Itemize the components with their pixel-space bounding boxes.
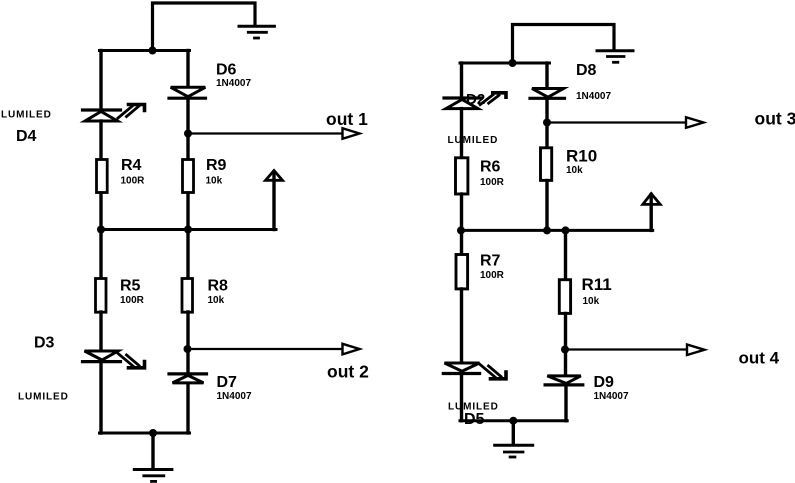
- svg-text:100R: 100R: [480, 270, 505, 281]
- LED D4 (cathode bar top, triangle up): [83, 110, 121, 121]
- wire: right branch bus to D6: [186, 51, 189, 87]
- wire: D4 to R4: [99, 121, 102, 159]
- wire: left branch mid bus to R5: [99, 230, 102, 279]
- svg-text:D4: D4: [16, 128, 37, 145]
- power arrow P1: [266, 171, 283, 230]
- svg-text:10k: 10k: [583, 296, 600, 307]
- resistor R9: [183, 160, 194, 193]
- svg-text:R10: R10: [566, 147, 597, 166]
- node: out1 junction dot: [184, 130, 192, 138]
- svg-text:R7: R7: [480, 253, 501, 270]
- svg-text:R6: R6: [480, 159, 501, 176]
- node: junction dot top-left bus: [149, 47, 157, 55]
- resistor R11: [559, 280, 570, 314]
- resistor R5: [96, 279, 107, 313]
- LED D2 emission arrows (drawn over label): [479, 93, 506, 106]
- svg-text:10k: 10k: [566, 165, 583, 176]
- wire: D7 to bottom bus: [186, 384, 189, 433]
- wire: D3 to bottom bus: [99, 362, 102, 433]
- node: dot left mid bus x=188: [184, 226, 192, 234]
- wire: out 2 line: [189, 348, 343, 350]
- ground G4 bottom-right: [495, 445, 533, 457]
- svg-text:R9: R9: [206, 157, 227, 174]
- wire: left branch from bus to D4: [99, 51, 102, 111]
- wire: R4 to mid bus: [99, 193, 102, 230]
- diode D9 (triangle down, bar bottom): [545, 376, 583, 385]
- wire: right bottom bus y=420.7: [460, 419, 567, 422]
- wire: right top bus y=63: [460, 62, 550, 65]
- wire: D9 to bottom bus: [564, 385, 567, 421]
- svg-text:out 3: out 3: [755, 109, 795, 129]
- svg-text:10k: 10k: [206, 176, 223, 187]
- svg-text:LUMILED: LUMILED: [448, 135, 499, 146]
- arrowhead out 1: [343, 128, 360, 139]
- wire: R11 to D9 through out4 node: [564, 314, 567, 375]
- LED D3 emission arrows: [118, 354, 145, 368]
- wire: left top bus y=50.5: [100, 49, 190, 52]
- wire: left top loop riser and top run to ground: [153, 3, 256, 51]
- svg-text:LUMILED: LUMILED: [1, 110, 52, 121]
- wire: right branch bus to D8: [545, 63, 548, 87]
- svg-text:D3: D3: [34, 335, 55, 352]
- svg-text:out 2: out 2: [327, 362, 369, 382]
- wire: R5 to D3: [99, 312, 102, 350]
- svg-text:R11: R11: [582, 275, 612, 294]
- wire: out 3 line: [548, 121, 686, 123]
- svg-text:100R: 100R: [120, 295, 145, 306]
- wire: D2 to R6: [460, 109, 463, 157]
- node: dot left mid bus x=101: [97, 226, 105, 234]
- resistor R7: [456, 255, 468, 289]
- diode D8 (triangle down, bar bottom): [530, 89, 565, 99]
- node: out4 junction dot: [561, 346, 569, 354]
- svg-text:R8: R8: [208, 278, 229, 295]
- svg-text:D2: D2: [466, 91, 485, 108]
- wire: R9 to mid bus: [186, 193, 189, 230]
- node: dot right mid bus x=461: [457, 226, 465, 234]
- resistor R4: [97, 160, 108, 193]
- LED D2 (cathode bar top, triangle up): [444, 98, 481, 109]
- arrowhead out 3: [686, 117, 704, 128]
- svg-text:LUMILED: LUMILED: [18, 392, 69, 403]
- wire: R7 to D5: [460, 289, 463, 362]
- svg-text:D9: D9: [594, 374, 615, 391]
- wire: right-left branch mid bus to R7: [460, 230, 463, 254]
- ground G3 bottom-left: [134, 470, 172, 482]
- wire: right mid bus y=230.4: [460, 229, 653, 232]
- svg-text:1N4007: 1N4007: [216, 78, 251, 89]
- power arrow P2: [643, 194, 660, 231]
- ground G2 top-right: [597, 51, 633, 63]
- svg-text:D8: D8: [576, 62, 597, 79]
- diode D7 (bar top, triangle up): [169, 374, 207, 383]
- arrowhead out 4: [687, 345, 705, 356]
- svg-text:1N4007: 1N4007: [594, 391, 629, 402]
- node: dot right mid bus x=565.5: [562, 226, 570, 234]
- wire: right branch mid bus to R8: [186, 230, 189, 279]
- wire: out 4 line: [567, 348, 688, 350]
- svg-text:10k: 10k: [208, 295, 225, 306]
- wire: left bottom bus y=433: [100, 432, 190, 435]
- node: dot right mid bus x=547: [543, 226, 551, 234]
- svg-text:out 4: out 4: [739, 349, 780, 368]
- wire: ground stem bottom-right: [512, 421, 515, 445]
- svg-text:R4: R4: [121, 157, 142, 174]
- svg-text:100R: 100R: [121, 176, 146, 187]
- resistor R6: [456, 158, 468, 194]
- resistor R10: [541, 148, 552, 181]
- node: dot bottom-left ground junction: [149, 429, 157, 437]
- wire: right top loop riser and top run to ground: [513, 25, 615, 64]
- svg-text:D6: D6: [216, 62, 237, 79]
- node: out3 junction dot: [543, 119, 551, 127]
- svg-text:1N4007: 1N4007: [217, 391, 252, 402]
- svg-text:out 1: out 1: [326, 109, 368, 129]
- svg-text:1N4007: 1N4007: [576, 91, 611, 102]
- wire: right-right branch mid bus to R11: [564, 230, 567, 279]
- wire: D6 to R9 through out1 node: [186, 98, 189, 159]
- ground G1 top-left: [239, 26, 274, 38]
- LED D3 (triangle down, cathode bar below): [83, 351, 121, 362]
- LED D4 emission arrows: [118, 105, 145, 119]
- wire: D5 to bottom bus: [460, 374, 463, 421]
- wire: right-left branch bus to D2: [460, 63, 463, 98]
- svg-text:D5: D5: [464, 411, 485, 428]
- wire: left mid bus y=229.5: [100, 228, 277, 231]
- node: dot bottom-right ground junction: [509, 417, 517, 425]
- arrowhead out 2: [343, 344, 360, 355]
- svg-text:R5: R5: [120, 278, 141, 295]
- wire: R6 to mid bus: [460, 194, 463, 230]
- svg-text:D7: D7: [217, 374, 238, 391]
- diode D6 (triangle down, bar bottom): [169, 87, 206, 98]
- wire: R10 to mid bus: [545, 181, 548, 231]
- wire: ground stem bottom-left: [151, 433, 154, 468]
- wire: out 1 line: [189, 132, 343, 134]
- LED D5 (triangle down, cathode bar below): [443, 363, 479, 374]
- wire: D8 to R10 through out3 node: [545, 98, 548, 147]
- LED D5 emission arrows: [480, 365, 506, 379]
- wire: R8 to D7 through out2 node: [186, 312, 189, 374]
- node: out2 junction dot: [184, 345, 192, 353]
- resistor R8: [182, 279, 193, 313]
- node: junction dot top-right bus: [509, 59, 517, 67]
- svg-text:100R: 100R: [480, 177, 505, 188]
